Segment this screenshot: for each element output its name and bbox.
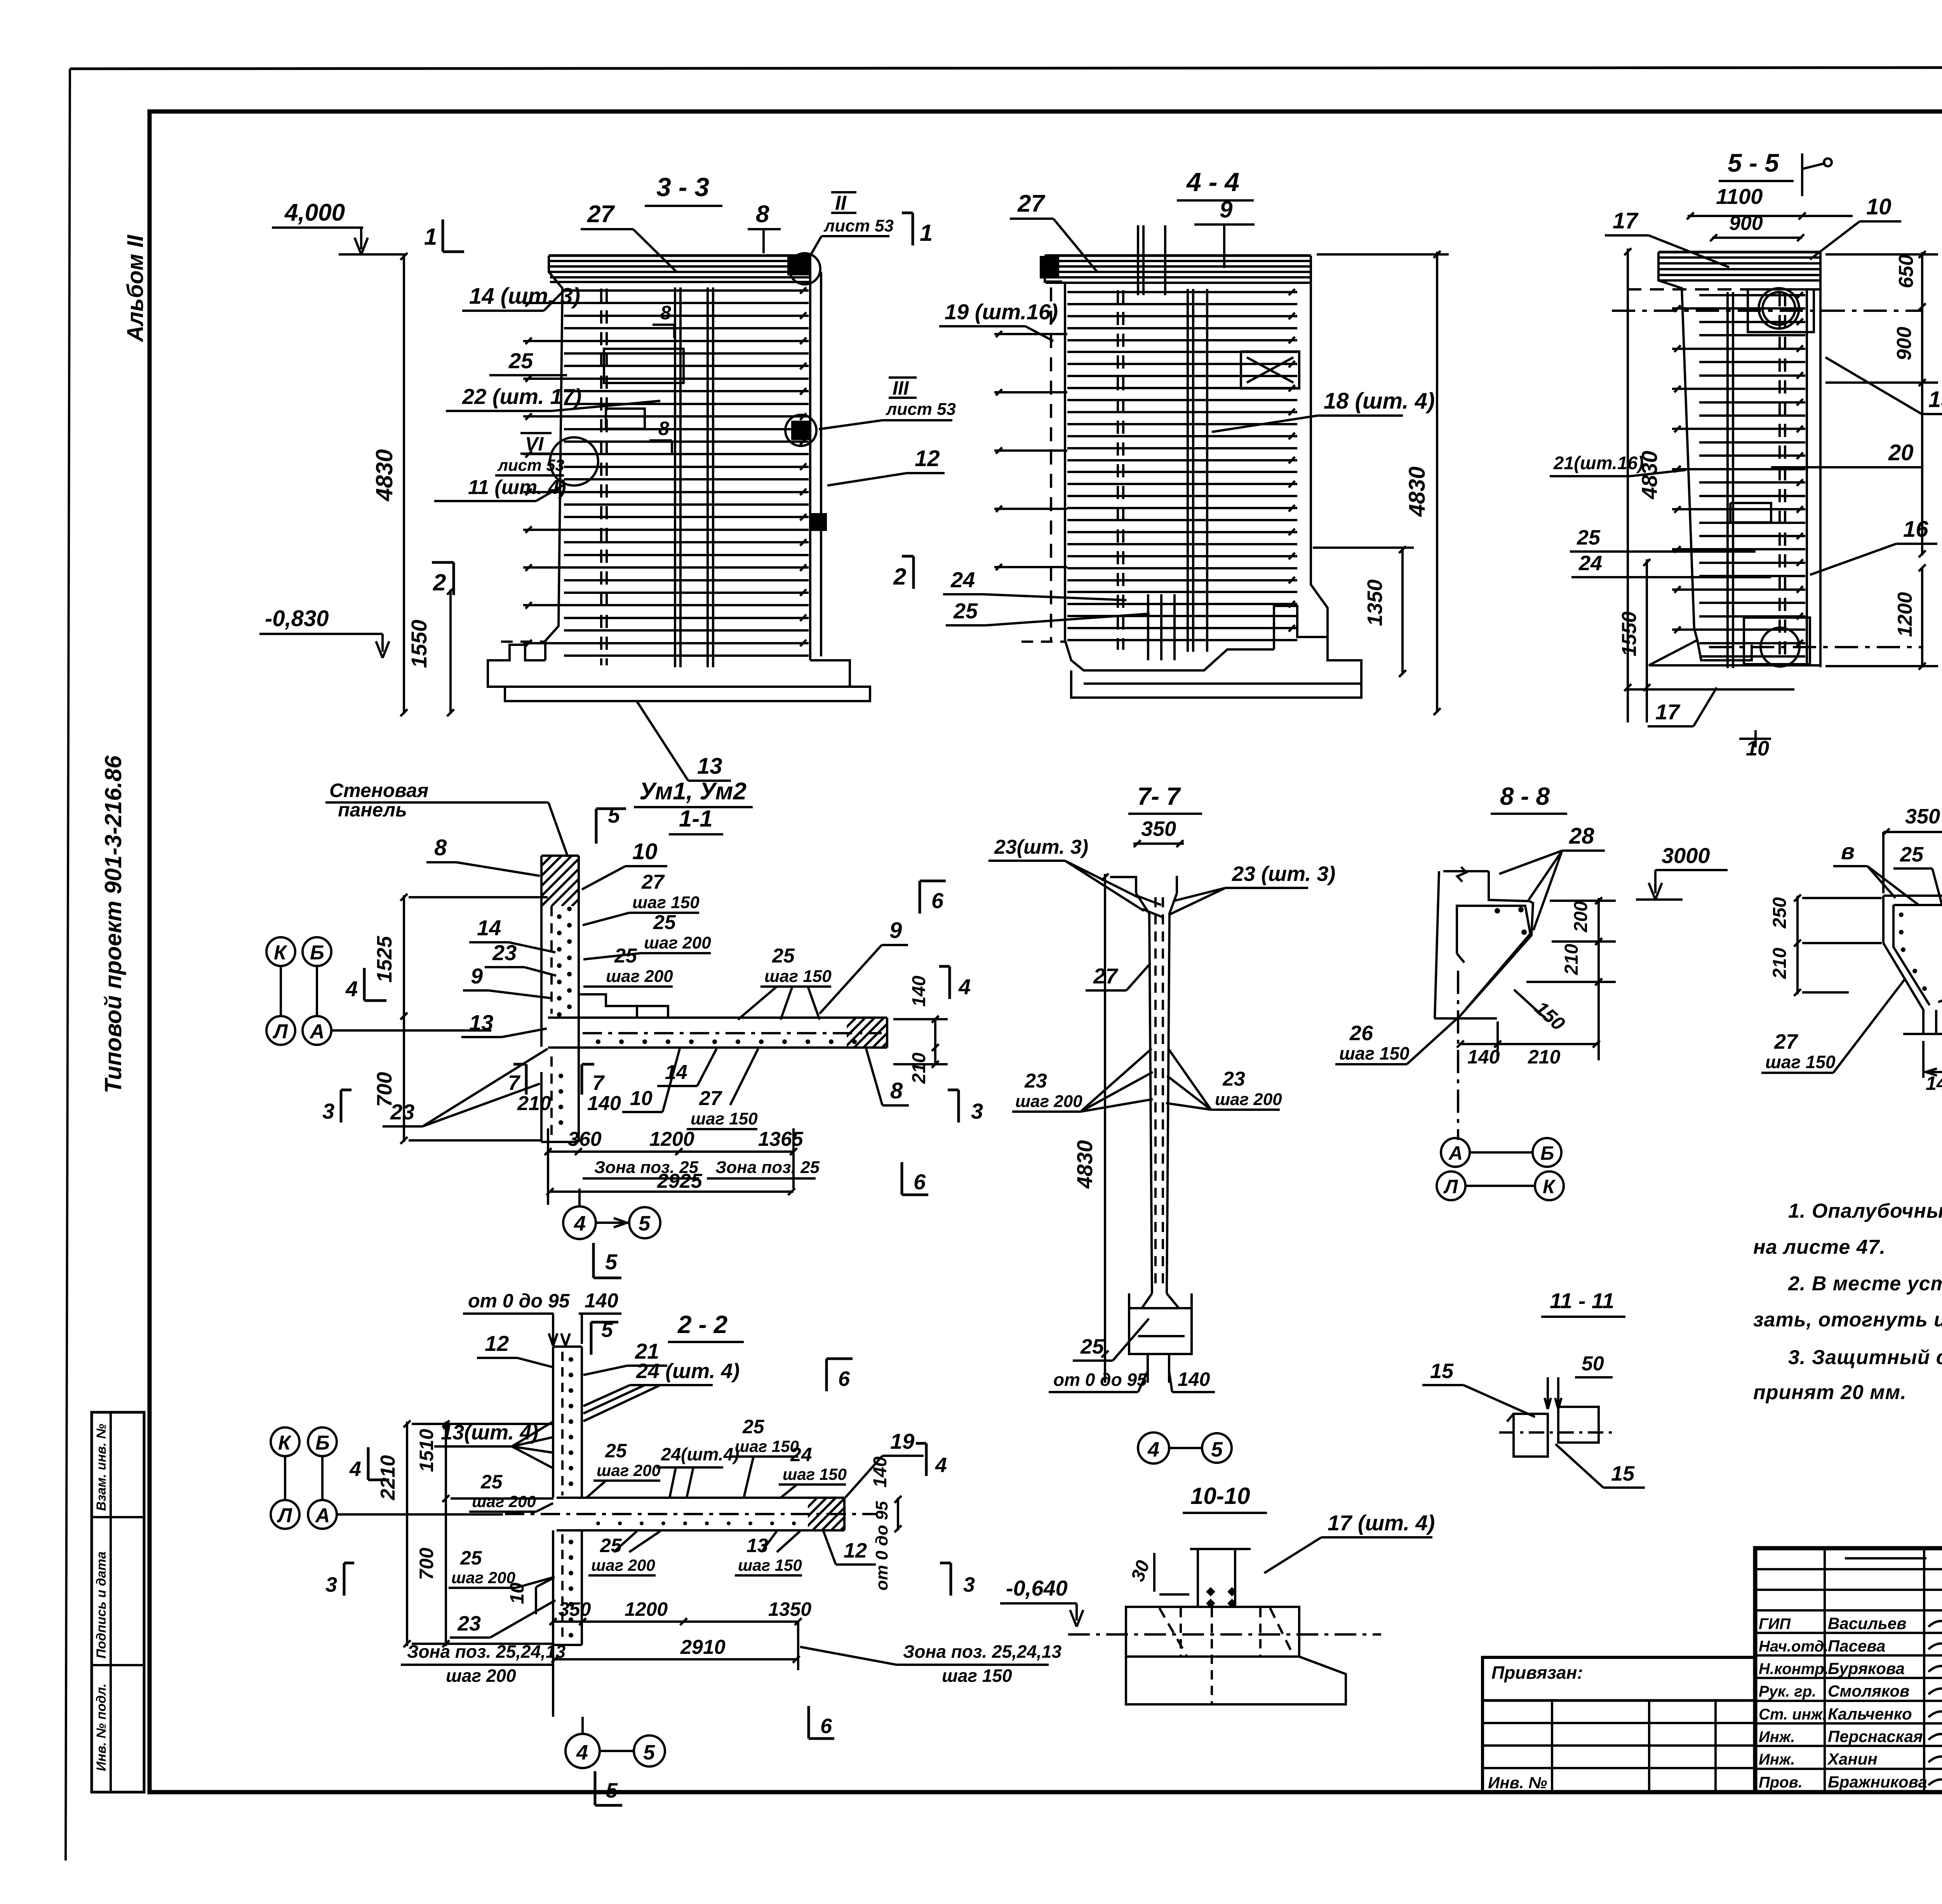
- section 3-3 bottom dashed line: [501, 640, 545, 643]
- section 4-4 vertical hook bars: [1137, 225, 1139, 295]
- svg-text:210: 210: [909, 1053, 929, 1084]
- section 7-7 axis bubbles 4 5: [1138, 1432, 1169, 1464]
- outer border left: [66, 69, 70, 1860]
- svg-text:24: 24: [1578, 552, 1602, 575]
- svg-text:1510: 1510: [416, 1429, 437, 1472]
- section 1-1 dim 700: [403, 1018, 405, 1142]
- svg-text:от 0 до 95: от 0 до 95: [1053, 1370, 1147, 1390]
- svg-text:25: 25: [772, 945, 795, 967]
- detail I corner shape: [1883, 895, 1942, 897]
- svg-text:2925: 2925: [657, 1170, 703, 1192]
- svg-text:Альбом II: Альбом II: [123, 234, 148, 343]
- svg-text:11 - 11: 11 - 11: [1550, 1288, 1614, 1313]
- svg-text:6: 6: [838, 1367, 850, 1391]
- svg-text:25: 25: [600, 1535, 622, 1556]
- svg-text:Л: Л: [272, 1020, 288, 1043]
- svg-text:-0,640: -0,640: [1006, 1576, 1068, 1600]
- section 5-5 dim 1550 left: [1646, 559, 1648, 722]
- section 4-4 bottom dashed line: [1021, 640, 1066, 643]
- svg-text:лист 53: лист 53: [886, 400, 956, 419]
- svg-text:Перснаская: Перснаская: [1828, 1727, 1923, 1746]
- svg-text:140: 140: [870, 1457, 891, 1488]
- svg-text:2910: 2910: [680, 1636, 726, 1659]
- svg-text:350: 350: [559, 1598, 591, 1620]
- svg-text:25: 25: [480, 1471, 503, 1493]
- svg-text:3. Защитный слой бетона дл: 3. Защитный слой бетона для горизонтальн…: [1788, 1346, 1942, 1369]
- svg-text:23(шт. 3): 23(шт. 3): [994, 836, 1088, 858]
- svg-text:4: 4: [935, 1453, 947, 1477]
- section 2-2 axis circles: [271, 1427, 299, 1456]
- svg-text:25: 25: [1577, 526, 1601, 549]
- outer border top: [70, 67, 1942, 69]
- svg-text:от 0 до 95: от 0 до 95: [872, 1501, 891, 1591]
- svg-text:шаг 200: шаг 200: [1215, 1090, 1282, 1109]
- svg-text:16: 16: [1903, 517, 1928, 542]
- section 4-4 top flange: [1046, 260, 1310, 262]
- svg-text:140: 140: [909, 976, 929, 1007]
- svg-text:15: 15: [1430, 1359, 1454, 1383]
- svg-text:Пров.: Пров.: [1759, 1774, 1803, 1791]
- svg-text:13: 13: [697, 754, 722, 779]
- svg-text:23: 23: [492, 940, 517, 965]
- svg-text:Типовой проект 901-3-216.86: Типовой проект 901-3-216.86: [100, 755, 126, 1093]
- svg-text:27: 27: [587, 201, 615, 228]
- svg-text:140: 140: [585, 1290, 618, 1312]
- svg-text:12: 12: [485, 1331, 509, 1356]
- svg-text:Подпись и дата: Подпись и дата: [94, 1551, 109, 1659]
- svg-text:4830: 4830: [1072, 1140, 1097, 1189]
- title block signature rows: [1755, 1632, 1942, 1634]
- svg-text:1100: 1100: [1716, 184, 1763, 209]
- svg-text:Ханин: Ханин: [1827, 1750, 1878, 1768]
- svg-text:5: 5: [643, 1741, 655, 1764]
- svg-text:Зона поз. 25,24,13: Зона поз. 25,24,13: [903, 1641, 1062, 1662]
- svg-text:шаг 150: шаг 150: [632, 893, 700, 912]
- svg-text:шаг 150: шаг 150: [735, 1437, 799, 1455]
- svg-text:140: 140: [1178, 1368, 1210, 1390]
- svg-text:1525: 1525: [373, 936, 396, 983]
- svg-text:Бурякова: Бурякова: [1828, 1659, 1905, 1678]
- section 4-4 inset detail box: [1241, 352, 1299, 388]
- svg-text:5: 5: [608, 803, 620, 827]
- svg-text:на листе 47.: на листе 47.: [1753, 1236, 1886, 1258]
- svg-text:5: 5: [605, 1250, 618, 1274]
- svg-text:25: 25: [1900, 843, 1924, 866]
- section 5-5 dashed top line: [1627, 288, 1825, 291]
- svg-text:650: 650: [1895, 254, 1918, 288]
- svg-text:27: 27: [1093, 964, 1119, 988]
- section 7-7 column: [1136, 893, 1152, 1293]
- svg-text:Л: Л: [1443, 1176, 1458, 1197]
- section 3-3 vertical dim 4830: [403, 254, 405, 714]
- svg-text:шаг 200: шаг 200: [644, 933, 711, 952]
- svg-text:Кальченко: Кальченко: [1828, 1705, 1912, 1723]
- svg-text:шаг 200: шаг 200: [606, 967, 673, 986]
- svg-text:3: 3: [963, 1573, 975, 1596]
- svg-text:9: 9: [889, 918, 902, 943]
- svg-text:2: 2: [893, 564, 906, 590]
- section 5-5 top flange: [1659, 256, 1820, 259]
- svg-text:лист 53: лист 53: [497, 456, 564, 474]
- svg-text:5: 5: [1211, 1438, 1223, 1461]
- svg-text:Ст. инж.: Ст. инж.: [1759, 1706, 1827, 1723]
- section 2-2 wall: [552, 1347, 554, 1498]
- svg-text:шаг 150: шаг 150: [691, 1109, 758, 1128]
- svg-text:3 - 3: 3 - 3: [656, 172, 709, 202]
- section 8-8 axis dashline: [1457, 971, 1459, 1140]
- svg-text:210: 210: [517, 1092, 551, 1115]
- svg-text:27: 27: [1017, 190, 1045, 217]
- section 1-1 wall: [540, 856, 543, 1047]
- section 1-1 dim 2925: [548, 1190, 794, 1193]
- svg-text:700: 700: [416, 1547, 437, 1580]
- section 10-10 footing: [1126, 1607, 1299, 1657]
- svg-text:шаг 150: шаг 150: [1339, 1043, 1410, 1063]
- svg-text:200: 200: [1571, 901, 1591, 933]
- svg-text:23: 23: [1222, 1068, 1245, 1090]
- svg-text:25: 25: [1080, 1335, 1104, 1358]
- svg-text:4: 4: [349, 1457, 361, 1481]
- svg-text:18 (шт. 4): 18 (шт. 4): [1324, 388, 1435, 414]
- section 5-5 dim 1200 right: [1921, 567, 1923, 667]
- section 7-7 top hooks: [1139, 896, 1161, 905]
- svg-text:25: 25: [742, 1416, 765, 1438]
- svg-text:2: 2: [433, 569, 446, 595]
- section 2-2 wall below slab: [552, 1530, 554, 1645]
- section 11-11 detail: [1514, 1414, 1548, 1457]
- svg-text:шаг 150: шаг 150: [942, 1666, 1012, 1686]
- svg-text:900: 900: [1729, 212, 1763, 235]
- svg-text:25: 25: [653, 911, 676, 934]
- svg-text:4: 4: [576, 1741, 588, 1764]
- svg-text:1350: 1350: [1363, 580, 1387, 626]
- svg-text:Б: Б: [315, 1432, 330, 1454]
- svg-text:24: 24: [950, 567, 975, 592]
- svg-text:8: 8: [890, 1078, 903, 1103]
- svg-text:1200: 1200: [1894, 592, 1916, 637]
- svg-text:Зона поз. 25: Зона поз. 25: [715, 1158, 820, 1177]
- svg-text:1550: 1550: [1618, 611, 1641, 656]
- svg-text:12: 12: [844, 1539, 867, 1562]
- svg-text:8 - 8: 8 - 8: [1500, 782, 1550, 810]
- svg-text:27: 27: [1774, 1030, 1799, 1053]
- svg-text:10-10: 10-10: [1190, 1483, 1250, 1509]
- svg-text:Васильев: Васильев: [1828, 1614, 1907, 1632]
- svg-text:12: 12: [915, 446, 940, 471]
- svg-text:5 - 5: 5 - 5: [1728, 148, 1779, 177]
- svg-text:шаг 150: шаг 150: [783, 1465, 847, 1483]
- svg-text:13(шт. 4): 13(шт. 4): [441, 1421, 538, 1444]
- svg-text:7: 7: [592, 1071, 605, 1095]
- section 5-5 rebar field: [1699, 294, 1805, 296]
- section 8-8 axis circles: [1441, 1138, 1470, 1167]
- section 10-10 axis line: [1068, 1633, 1381, 1636]
- svg-text:4: 4: [958, 975, 971, 999]
- section 5-5 wall outline: [1658, 251, 1820, 254]
- section 1-1 axis bubbles 4 5: [563, 1206, 596, 1239]
- svg-text:23: 23: [457, 1612, 481, 1635]
- svg-text:Смоляков: Смоляков: [1828, 1682, 1909, 1700]
- svg-text:Инв. № подл.: Инв. № подл.: [94, 1683, 109, 1771]
- svg-text:25: 25: [953, 599, 978, 623]
- svg-text:Зона поз. 25,24,13: Зона поз. 25,24,13: [407, 1641, 566, 1662]
- svg-text:250: 250: [1770, 897, 1790, 929]
- svg-text:23: 23: [390, 1100, 414, 1124]
- svg-text:1365: 1365: [758, 1128, 804, 1150]
- svg-text:-0,830: -0,830: [265, 606, 329, 631]
- section 3-3 base slab: [488, 645, 870, 701]
- svg-text:VI: VI: [525, 433, 544, 455]
- section 10-10 footing hatching: [1159, 1608, 1187, 1655]
- svg-text:6: 6: [820, 1714, 832, 1738]
- section 5-5 right dim 650 900: [1921, 252, 1923, 555]
- svg-text:900: 900: [1893, 327, 1916, 360]
- svg-text:15: 15: [1611, 1462, 1635, 1485]
- section 2-2 dim 2910: [553, 1658, 798, 1660]
- svg-text:Взам. инв. №: Взам. инв. №: [94, 1424, 109, 1511]
- svg-text:24: 24: [790, 1444, 812, 1465]
- section 5-5 small step box: [1730, 503, 1771, 522]
- section 5-5 inner box bottom: [1744, 618, 1810, 664]
- section 3-3 connector square right: [810, 514, 826, 530]
- section 3-3 rebar field: [564, 289, 809, 292]
- svg-text:II: II: [835, 192, 847, 214]
- svg-text:1200: 1200: [625, 1598, 668, 1620]
- svg-text:шаг 150: шаг 150: [738, 1556, 802, 1574]
- svg-text:20: 20: [1888, 440, 1914, 465]
- svg-text:Инж.: Инж.: [1759, 1751, 1795, 1768]
- svg-text:25: 25: [605, 1440, 627, 1462]
- svg-text:25: 25: [508, 348, 533, 373]
- section 8-8 dims 200 210 right: [1597, 898, 1600, 984]
- svg-text:4: 4: [574, 1212, 586, 1235]
- section 3-3 connector circle II: [789, 253, 820, 284]
- svg-text:4830: 4830: [371, 449, 397, 501]
- svg-text:5: 5: [606, 1779, 618, 1802]
- svg-text:23: 23: [1024, 1070, 1047, 1092]
- svg-text:27: 27: [699, 1087, 722, 1110]
- section 1-1 floor slab: [548, 1016, 887, 1019]
- section 10-10 column: [1197, 1549, 1199, 1607]
- svg-text:4,000: 4,000: [284, 199, 345, 226]
- svg-text:Б: Б: [310, 942, 324, 964]
- svg-text:Бражникова: Бражникова: [1828, 1773, 1927, 1791]
- svg-text:шаг 200: шаг 200: [1015, 1092, 1082, 1111]
- svg-text:25: 25: [614, 945, 637, 967]
- svg-text:принят 20 мм.: принят 20 мм.: [1753, 1381, 1907, 1404]
- svg-text:Инж.: Инж.: [1759, 1728, 1795, 1746]
- svg-text:Стеновая: Стеновая: [329, 780, 428, 801]
- svg-text:К: К: [278, 1432, 292, 1454]
- svg-text:8: 8: [658, 418, 669, 439]
- svg-text:3: 3: [322, 1099, 334, 1123]
- svg-text:3: 3: [971, 1099, 983, 1123]
- svg-text:1: 1: [920, 220, 933, 246]
- section 1-1 dim 140 210 right: [934, 1018, 936, 1065]
- section 1-1 axis circles: [266, 937, 295, 966]
- svg-text:в: в: [1841, 839, 1855, 864]
- svg-text:13: 13: [469, 1010, 493, 1035]
- svg-text:К: К: [274, 942, 287, 964]
- svg-text:10: 10: [1746, 737, 1769, 760]
- svg-text:А: А: [1448, 1142, 1463, 1164]
- svg-text:210: 210: [1528, 1046, 1561, 1068]
- svg-text:Пасева: Пасева: [1828, 1637, 1885, 1655]
- svg-text:III: III: [893, 377, 909, 399]
- svg-text:26: 26: [1349, 1022, 1373, 1045]
- svg-text:5: 5: [639, 1212, 651, 1235]
- svg-text:шаг 150: шаг 150: [764, 967, 832, 986]
- title block signature columns: [1824, 1548, 1826, 1792]
- section 4-4 base: [1065, 640, 1274, 670]
- svg-text:10: 10: [506, 1582, 528, 1604]
- section 5-5 pipe bottom: [1761, 628, 1799, 667]
- section 3-3 top flange: [550, 260, 809, 262]
- svg-text:15: 15: [1928, 387, 1942, 412]
- svg-text:14 (шт. 3): 14 (шт. 3): [469, 284, 580, 309]
- svg-text:8: 8: [756, 201, 769, 228]
- svg-text:14: 14: [665, 1061, 687, 1084]
- privyazan table: [1483, 1657, 1755, 1792]
- section 5-5 base: [1649, 628, 1697, 665]
- svg-text:210: 210: [1770, 948, 1790, 979]
- svg-text:23 (шт. 3): 23 (шт. 3): [1232, 862, 1335, 886]
- svg-text:140: 140: [1467, 1046, 1500, 1068]
- section 1-1 dim 1525: [403, 895, 405, 1018]
- section 2-2 floor slab: [557, 1497, 844, 1499]
- svg-text:4830: 4830: [1404, 466, 1430, 517]
- svg-text:А: А: [315, 1504, 330, 1527]
- section 1-1 bottom dims: [548, 1150, 794, 1153]
- svg-text:7: 7: [508, 1071, 521, 1095]
- svg-text:210: 210: [1561, 944, 1582, 975]
- svg-text:27: 27: [641, 871, 665, 893]
- left margin stamp boxes: [92, 1412, 144, 1792]
- svg-text:зать, отогнуть и приварить: зать, отогнуть и приварить к корпусу сал…: [1753, 1309, 1942, 1331]
- svg-text:лист 53: лист 53: [823, 216, 894, 235]
- svg-text:Инв. №: Инв. №: [1488, 1773, 1547, 1792]
- svg-text:21(шт.16): 21(шт.16): [1553, 453, 1644, 473]
- svg-text:А: А: [309, 1020, 325, 1043]
- svg-text:10: 10: [630, 1087, 653, 1110]
- svg-text:ГИП: ГИП: [1759, 1615, 1791, 1632]
- svg-text:22 (шт. 17): 22 (шт. 17): [462, 384, 581, 409]
- svg-text:17: 17: [1613, 208, 1639, 233]
- section 8-8 break mark top: [1457, 867, 1466, 882]
- section 2-2 bottom dims 350 1200 1350: [553, 1620, 798, 1623]
- svg-text:шаг 150: шаг 150: [1765, 1052, 1836, 1072]
- svg-text:Нач.отд.: Нач.отд.: [1759, 1638, 1828, 1655]
- svg-text:шаг 200: шаг 200: [446, 1666, 516, 1686]
- svg-text:3: 3: [325, 1573, 337, 1596]
- svg-text:4: 4: [1147, 1438, 1159, 1461]
- svg-text:шаг 200: шаг 200: [472, 1492, 536, 1511]
- svg-text:1200: 1200: [649, 1128, 694, 1150]
- svg-text:19: 19: [890, 1429, 914, 1453]
- svg-text:6: 6: [931, 888, 944, 913]
- svg-text:10: 10: [1866, 194, 1892, 219]
- svg-text:17: 17: [1655, 700, 1681, 724]
- title block change-rows: [1755, 1568, 1942, 1570]
- svg-text:Ум1, Ум2: Ум1, Ум2: [639, 778, 747, 805]
- svg-text:19 (шт.16): 19 (шт.16): [945, 299, 1058, 324]
- svg-text:140: 140: [587, 1092, 621, 1115]
- svg-text:2 - 2: 2 - 2: [677, 1311, 727, 1338]
- svg-text:1. Опалубочные чертежи монол: 1. Опалубочные чертежи монолитных участк…: [1788, 1200, 1942, 1222]
- section 4-4 dim 1350 right: [1401, 548, 1404, 675]
- section 7-7 left dim 4830: [1104, 874, 1106, 1383]
- svg-text:Привязан:: Привязан:: [1491, 1662, 1583, 1683]
- section 5-5 axis dashdot bottom: [1709, 646, 1923, 648]
- svg-text:6: 6: [914, 1170, 926, 1194]
- svg-text:25: 25: [460, 1547, 482, 1569]
- section 4-4 long left rebar extensions: [994, 333, 1067, 335]
- svg-text:9: 9: [1220, 197, 1233, 223]
- svg-text:2210: 2210: [377, 1455, 399, 1500]
- section 3-3 wall outline: [549, 254, 810, 257]
- section 5-5 left dim 4830: [1627, 249, 1629, 722]
- svg-text:шаг 200: шаг 200: [597, 1461, 661, 1479]
- svg-text:14: 14: [477, 915, 501, 940]
- title block outer box: [1755, 1548, 1942, 1792]
- svg-text:8: 8: [660, 302, 671, 324]
- detail I dims 250 210: [1796, 896, 1799, 994]
- section 5-5 axis dashdot top: [1612, 310, 1923, 312]
- svg-text:1350: 1350: [768, 1598, 811, 1620]
- section 8-8 dim 140 210 bottom: [1459, 1043, 1599, 1045]
- section 4-4 wall outline: [1045, 254, 1311, 257]
- svg-text:от 0 до 95: от 0 до 95: [468, 1290, 570, 1312]
- section 3-3 opening circle VI: [550, 437, 598, 486]
- svg-text:Л: Л: [277, 1504, 292, 1527]
- section 2-2 dim 2210 1510 700: [406, 1422, 408, 1646]
- section 4-4 dim 4830 right: [1436, 252, 1438, 713]
- section 3-3 dim 1550: [449, 590, 452, 714]
- svg-text:360: 360: [568, 1128, 602, 1150]
- section 2-2 axis bubbles 4 5: [566, 1734, 600, 1768]
- svg-text:9: 9: [471, 964, 483, 988]
- svg-text:К: К: [1543, 1176, 1556, 1197]
- section 8-8 corner shape inner: [1457, 906, 1530, 1009]
- svg-text:17 (шт. 4): 17 (шт. 4): [1328, 1511, 1435, 1535]
- svg-text:3000: 3000: [1662, 843, 1710, 868]
- svg-text:24(шт.4): 24(шт.4): [661, 1444, 739, 1464]
- svg-text:4: 4: [345, 976, 358, 1001]
- section 5-5 pipe top: [1759, 288, 1799, 329]
- svg-text:8: 8: [434, 835, 447, 860]
- svg-text:50: 50: [1582, 1352, 1604, 1375]
- section 8-8 corner shape outer: [1443, 870, 1489, 872]
- section 1-1 slab step detail: [579, 994, 637, 1018]
- svg-text:350: 350: [1141, 817, 1176, 841]
- section 4-4 rebar field: [1067, 291, 1297, 293]
- svg-text:28: 28: [1569, 823, 1594, 849]
- svg-text:7- 7: 7- 7: [1137, 782, 1182, 810]
- svg-text:Н.контр.: Н.контр.: [1759, 1660, 1829, 1678]
- svg-text:350: 350: [1905, 805, 1940, 828]
- svg-text:2. В месте установки корпуса: 2. В месте установки корпуса сальника ар…: [1788, 1272, 1942, 1295]
- section 5-5 inner box top: [1748, 289, 1814, 332]
- svg-text:1550: 1550: [407, 620, 431, 668]
- section 3-3 lap zone dashed box: [604, 349, 684, 383]
- section 3-3 connector circle III: [785, 415, 816, 446]
- svg-text:4 - 4: 4 - 4: [1186, 167, 1239, 197]
- svg-text:Рук. гр.: Рук. гр.: [1759, 1683, 1816, 1700]
- svg-text:Б: Б: [1540, 1142, 1554, 1164]
- svg-text:1-1: 1-1: [679, 806, 713, 832]
- section 1-1 wall below slab: [540, 1072, 543, 1142]
- svg-text:шаг 200: шаг 200: [591, 1556, 655, 1574]
